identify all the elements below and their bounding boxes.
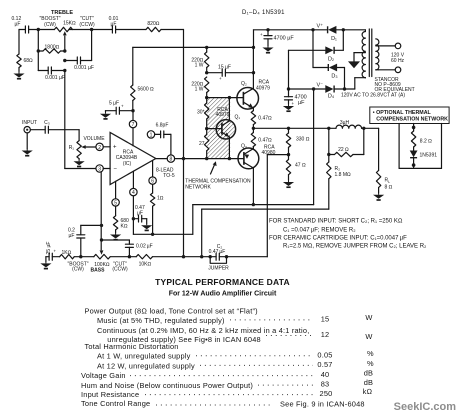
svg-text:COMPENSATION NETWORK: COMPENSATION NETWORK: [376, 117, 448, 123]
diode D4: [325, 85, 355, 99]
wire V- rail: [289, 88, 326, 90]
potentiometer R1 volume: [77, 141, 96, 160]
note text input options: [269, 219, 427, 250]
svg-text:5600 Ω: 5600 Ω: [138, 87, 155, 93]
svg-text:R₂: R₂: [335, 166, 341, 172]
svg-text:JUMPER: JUMPER: [208, 266, 229, 272]
diode 1N5391 optional: [410, 151, 438, 166]
svg-text:25 µF: 25 µF: [46, 242, 52, 255]
svg-text:FOR STANDARD INPUT: SHORT C₂;: FOR STANDARD INPUT: SHORT C₂; R₁ =250 KΩ: [269, 219, 403, 225]
jumper across C2: [208, 257, 229, 272]
wire primary leads and plug: [378, 43, 405, 72]
svg-text:6.8pF: 6.8pF: [156, 123, 169, 129]
node 22 ohm left: [327, 127, 330, 130]
svg-text:D₃: D₃: [331, 74, 337, 80]
node output junction: [252, 127, 255, 130]
svg-text:1800Ω: 1800Ω: [45, 44, 60, 50]
svg-text:C₃: C₃: [44, 120, 50, 126]
node 0.2uF junction: [100, 224, 103, 227]
svg-text:C₁ =0.047 µF; REMOVE R₂: C₁ =0.047 µF; REMOVE R₂: [283, 227, 356, 233]
input jack: [24, 127, 30, 149]
svg-text:+: +: [121, 104, 124, 109]
svg-text:µF: µF: [111, 21, 117, 27]
diode D1: [328, 26, 344, 42]
svg-text:µF: µF: [298, 100, 305, 106]
label thermal compensation network w/ arrow: [185, 161, 251, 190]
node feedback-bass junction: [182, 255, 185, 258]
svg-text:40979: 40979: [256, 85, 270, 91]
pin 4: [130, 171, 137, 234]
svg-text:60 Hz: 60 Hz: [391, 58, 405, 64]
ground 4700uF lower: [283, 104, 294, 111]
label 8-LEAD TO-5: [156, 167, 175, 179]
resistor 820 ohm: [146, 21, 161, 32]
svg-text:For 12-W Audio Amplifier Circu: For 12-W Audio Amplifier Circuit: [169, 290, 277, 297]
ground RL: [373, 193, 384, 200]
label STANCOR: [341, 77, 415, 98]
svg-text:W: W: [365, 313, 372, 322]
potentiometer 100K bass: [91, 250, 128, 273]
node pin4 cap: [132, 217, 135, 220]
pin 3: [96, 165, 110, 173]
resistor 22 ohm: [329, 128, 364, 156]
svg-text:8 Ω: 8 Ω: [385, 184, 393, 190]
node 1800 right: [63, 49, 66, 52]
wire D2 to V- rail: [288, 50, 290, 89]
svg-text:1KΩ: 1KΩ: [62, 250, 72, 256]
resistor 47 ohm: [286, 155, 306, 180]
node cut end rail: [90, 28, 93, 31]
node V- down: [312, 87, 315, 90]
svg-text:Music (at 5% THD, regulated su: Music (at 5% THD, regulated supply): [97, 316, 225, 325]
svg-text:4700 µF: 4700 µF: [274, 36, 295, 42]
svg-text:+: +: [292, 101, 295, 106]
svg-text:kΩ: kΩ: [363, 387, 373, 396]
ground 68 ohm: [13, 72, 24, 79]
resistor 1800 ohm: [38, 44, 65, 53]
capacitor 0.01 uF: [109, 16, 119, 33]
pin 2: [96, 143, 110, 151]
svg-text:D₁–D₄ 1N5391: D₁–D₄ 1N5391: [242, 10, 285, 16]
op-amp U1 CA3094B triangle: [110, 132, 156, 184]
svg-text:5 µF: 5 µF: [109, 101, 119, 107]
svg-text:40980: 40980: [262, 150, 276, 156]
ground 4700uF upper: [262, 46, 273, 53]
svg-text:330 Ω: 330 Ω: [296, 136, 310, 142]
wire output row right: [253, 127, 336, 129]
wire bass row: [110, 256, 136, 258]
svg-text:Voltage Gain: Voltage Gain: [81, 371, 126, 380]
svg-text:1Ω: 1Ω: [157, 195, 164, 201]
svg-text:0.001 µF: 0.001 µF: [74, 65, 94, 71]
capacitor 15 uF: [207, 65, 254, 81]
svg-text:−: −: [113, 167, 117, 173]
svg-text:At 12 W, unregulated supply: At 12 W, unregulated supply: [97, 361, 195, 370]
svg-text:2: 2: [98, 145, 101, 151]
node feedback junction pin8: [182, 157, 185, 160]
svg-text:dB: dB: [364, 368, 373, 377]
capacitor 0.12 uF treble: [12, 16, 29, 33]
svg-text:6: 6: [151, 179, 154, 185]
table title: [155, 277, 290, 297]
svg-text:1.8 MΩ: 1.8 MΩ: [335, 172, 352, 178]
node D3-D4 right: [343, 87, 346, 90]
transistor Q1 RCA 40979: [207, 98, 241, 159]
svg-text:47 Ω: 47 Ω: [295, 163, 306, 169]
wire D1 to transformer top: [343, 29, 365, 31]
svg-text:(IC): (IC): [123, 161, 132, 167]
svg-text:15 µF: 15 µF: [218, 65, 231, 71]
svg-text:INPUT: INPUT: [22, 120, 37, 126]
svg-text:Continuous (at 0.2% IMD, 60 Hz: Continuous (at 0.2% IMD, 60 Hz & 2 kHz m…: [97, 326, 309, 335]
resistor 330 ohm: [286, 128, 309, 154]
node box bottom left: [205, 157, 208, 160]
svg-text:W: W: [365, 332, 372, 341]
svg-text:22 Ω: 22 Ω: [338, 147, 349, 153]
ground input jack: [22, 149, 33, 156]
wire treble top rail: [19, 29, 184, 31]
svg-text:68Ω: 68Ω: [24, 58, 34, 64]
svg-text:VOLUME: VOLUME: [83, 136, 105, 142]
ground R1: [74, 159, 85, 166]
svg-text:40979: 40979: [216, 112, 230, 118]
svg-text:0.57: 0.57: [317, 360, 332, 369]
capacitor 0.2 uF: [68, 225, 102, 256]
wire V- return row y234: [133, 89, 313, 234]
ground 680K: [110, 233, 121, 240]
pin 8: [156, 155, 175, 163]
svg-text:0.05: 0.05: [317, 350, 332, 359]
capacitor 0.001 uF lower: [38, 67, 65, 81]
node bass boost junction: [79, 255, 82, 258]
svg-text:µF: µF: [137, 210, 143, 216]
svg-text:+: +: [113, 145, 117, 151]
capacitor C3: [30, 126, 48, 133]
svg-text:D₂: D₂: [328, 56, 334, 62]
node treble boost end: [37, 28, 40, 31]
wire input row: [48, 130, 79, 141]
svg-text:4: 4: [132, 190, 135, 196]
node 5600 bottom: [131, 109, 134, 112]
svg-text:µF: µF: [15, 21, 21, 27]
ground 47 ohm: [283, 180, 294, 187]
node jumper left: [209, 255, 212, 258]
svg-text:Q₁: Q₁: [235, 115, 241, 121]
node 330-47 junction: [287, 153, 290, 156]
svg-text:1 W: 1 W: [195, 87, 204, 93]
ground 5uF: [100, 112, 111, 119]
svg-text:BASS: BASS: [91, 267, 106, 273]
ground pin4 cap: [141, 223, 152, 230]
svg-text:%: %: [367, 359, 374, 368]
svg-text:TYPICAL PERFORMANCE DATA: TYPICAL PERFORMANCE DATA: [155, 277, 290, 287]
capacitor 0.47 uF pin4: [133, 205, 146, 223]
node R2 at C2 row: [200, 255, 203, 258]
ground bass 25uF: [40, 261, 51, 268]
node 4700uF top: [266, 28, 269, 31]
svg-text:3µH: 3µH: [340, 120, 350, 126]
wire 330-47 junction to C2 feedback: [267, 155, 288, 257]
table rows: [81, 307, 374, 409]
wire boost-end vertical: [37, 30, 39, 71]
capacitor 4700uF lower: [285, 89, 307, 106]
svg-text:%: %: [367, 349, 374, 358]
transformer core: [369, 29, 372, 77]
node bass cut junction: [128, 255, 131, 258]
inductor 3uH: [336, 120, 379, 129]
svg-text:NETWORK: NETWORK: [185, 184, 211, 190]
svg-text:(CW): (CW): [44, 22, 56, 28]
svg-text:120V AC TO 26.8VCT AT (A): 120V AC TO 26.8VCT AT (A): [341, 92, 405, 98]
svg-text:0.001 µF: 0.001 µF: [45, 75, 65, 81]
svg-text:0.02 µF: 0.02 µF: [136, 243, 153, 249]
pin 6: [149, 161, 156, 193]
svg-text:SeekIC.com: SeekIC.com: [394, 401, 457, 413]
capacitor 6.8 pF: [155, 123, 171, 155]
svg-text:27: 27: [199, 141, 205, 147]
svg-text:15: 15: [321, 314, 330, 323]
svg-text:5: 5: [114, 200, 117, 206]
table dot leaders: [130, 320, 313, 405]
svg-text:Total Harmonic Distortation: Total Harmonic Distortation: [85, 342, 179, 351]
wire treble wiper down to pin3 row: [65, 71, 96, 169]
node 15uF right: [252, 71, 255, 74]
resistor 68 ohm: [17, 30, 33, 72]
transformer T1 secondary: [362, 30, 365, 78]
diode D3: [313, 30, 345, 89]
resistor 680K pin5: [113, 216, 129, 233]
node 1 ohm to V- row: [151, 233, 154, 236]
node Q3 collector at V- row: [252, 203, 255, 206]
capacitor 0.02 uF: [102, 240, 153, 257]
svg-text:(CCW): (CCW): [79, 22, 95, 28]
svg-text:1: 1: [150, 132, 153, 138]
resistor 0.47 ohm upper: [251, 111, 272, 129]
thermal compensation hatched region: [207, 98, 235, 158]
svg-text:Power Output (8Ω load, Tone Co: Power Output (8Ω load, Tone Control set …: [85, 307, 258, 316]
pin 5: [112, 181, 119, 216]
svg-text:0.47Ω: 0.47Ω: [258, 138, 272, 144]
svg-text:Tone Control Range: Tone Control Range: [81, 399, 150, 408]
diode D2: [289, 30, 344, 63]
svg-text:Hum and Noise (Below continuou: Hum and Noise (Below continuous Power Ou…: [81, 381, 253, 390]
transformer T1 primary: [376, 39, 379, 70]
resistor 8.2 ohm: [411, 127, 432, 150]
wire V+ rail: [254, 30, 328, 48]
capacitor C2 0.47uF: [209, 244, 268, 260]
svg-text:0.47Ω: 0.47Ω: [258, 116, 272, 122]
node D1 anode: [342, 28, 345, 31]
svg-text:At 1 W, unregulated supply: At 1 W, unregulated supply: [97, 352, 191, 361]
pin 1: [147, 131, 154, 139]
node R2 top: [327, 153, 330, 156]
svg-text:µF: µF: [69, 233, 75, 239]
node 1800 left: [37, 49, 40, 52]
svg-text:8: 8: [170, 157, 173, 163]
capacitor 25 uF bass: [46, 242, 60, 262]
resistor 5600 ohm: [131, 47, 154, 110]
svg-text:0.47 µF: 0.47 µF: [209, 249, 226, 255]
node 220 top: [205, 46, 208, 49]
svg-text:12: 12: [321, 330, 330, 339]
resistor 220 ohm 1W lower: [191, 77, 209, 98]
wire feedback vertical from 820 to pin8 to C2 row: [183, 30, 185, 257]
svg-text:40: 40: [321, 370, 330, 379]
transistor Q2 RCA 40979: [237, 47, 270, 110]
svg-text:30*: 30*: [197, 110, 205, 116]
svg-text:8.2 Ω: 8.2 Ω: [420, 138, 432, 144]
node 0.02uF junction: [100, 238, 103, 241]
capacitor 4700uF upper: [260, 30, 294, 46]
svg-text:Q₂: Q₂: [241, 81, 247, 87]
svg-text:15KΩ: 15KΩ: [63, 21, 76, 27]
resistor 30 ohm: [197, 98, 209, 129]
node 0.001 lower right: [63, 69, 66, 72]
svg-text:KΩ: KΩ: [121, 224, 128, 230]
svg-text:1 W: 1 W: [195, 63, 204, 69]
node Q1 emitter bottom: [228, 157, 231, 160]
svg-text:• OPTIONAL THERMAL: • OPTIONAL THERMAL: [373, 110, 432, 116]
node optional top: [412, 124, 416, 130]
svg-text:250: 250: [320, 389, 333, 398]
resistor R2 1.8M: [327, 155, 351, 210]
wire pin3 to bass wiper: [100, 172, 102, 250]
node 330 top: [287, 127, 290, 130]
node 30-27 junction: [205, 127, 208, 130]
node V+ Q2 collector: [252, 46, 255, 49]
transformer center tap ground: [348, 53, 365, 69]
node Q1 collector top: [228, 96, 231, 99]
pin 7: [129, 111, 136, 146]
capacitor 0.001 uF upper: [65, 30, 94, 72]
svg-text:1N5391: 1N5391: [420, 152, 438, 158]
svg-text:(CCW): (CCW): [112, 267, 128, 273]
svg-text:See Fig. 9 in ICAN-6048: See Fig. 9 in ICAN-6048: [280, 400, 365, 409]
svg-text:dB: dB: [364, 378, 373, 387]
svg-text:TO-5: TO-5: [163, 173, 175, 179]
svg-text:7: 7: [132, 122, 135, 128]
resistor 1K bass: [60, 250, 94, 272]
svg-text:D₄: D₄: [328, 94, 335, 100]
svg-text:+: +: [260, 32, 263, 37]
node 0.001 upper left: [63, 59, 66, 62]
svg-text:Q₃: Q₃: [241, 144, 247, 150]
wire pin8 output row: [175, 158, 239, 160]
svg-text:Input Resistance: Input Resistance: [81, 390, 139, 399]
svg-text:R₁=2.5 MΩ, REMOVE JUMPER FROM: R₁=2.5 MΩ, REMOVE JUMPER FROM C₂; LEAVE …: [283, 243, 427, 249]
node V+ to D3: [311, 28, 314, 31]
svg-text:FOR CERAMIC CARTRIDGE INPUT:: FOR CERAMIC CARTRIDGE INPUT: C₁=0.0047 µ…: [269, 236, 407, 242]
wire D4 to transformer bottom: [355, 78, 366, 89]
svg-text:820Ω: 820Ω: [147, 21, 159, 27]
node thermal box top left: [205, 96, 208, 99]
potentiometer treble 15K: [39, 16, 94, 51]
svg-text:+: +: [219, 76, 222, 81]
resistor 0.47 ohm lower: [251, 128, 272, 148]
svg-text:10KΩ: 10KΩ: [139, 262, 152, 268]
resistor 27 ohm: [199, 129, 209, 159]
wire thermal box top: [207, 97, 237, 99]
svg-text:83: 83: [321, 380, 330, 389]
svg-text:R₁: R₁: [69, 145, 75, 151]
svg-text:TREBLE: TREBLE: [51, 10, 73, 16]
svg-text:V⁻: V⁻: [317, 83, 324, 89]
node 22 ohm right: [362, 127, 365, 130]
wire bias rail y47: [133, 46, 254, 48]
svg-text:(CW): (CW): [72, 267, 84, 273]
node jumper right: [225, 255, 228, 258]
capacitor 5 uF pin7: [106, 101, 134, 115]
resistor 10K bass: [136, 255, 216, 268]
node V- 4700: [287, 87, 290, 90]
resistor RL 8 ohm: [376, 128, 392, 193]
node optional bottom: [412, 163, 416, 168]
svg-text:V⁺: V⁺: [317, 23, 324, 30]
resistor 220 ohm 1W upper: [191, 47, 209, 72]
node 220 mid: [205, 71, 208, 74]
wire R2 to C2 row: [202, 209, 329, 257]
svg-text:D₁: D₁: [331, 36, 337, 42]
transistor Q3 RCA 40980: [238, 144, 276, 205]
resistor 1 ohm pin6: [150, 193, 163, 234]
optional thermal compensation network box: [370, 107, 449, 168]
